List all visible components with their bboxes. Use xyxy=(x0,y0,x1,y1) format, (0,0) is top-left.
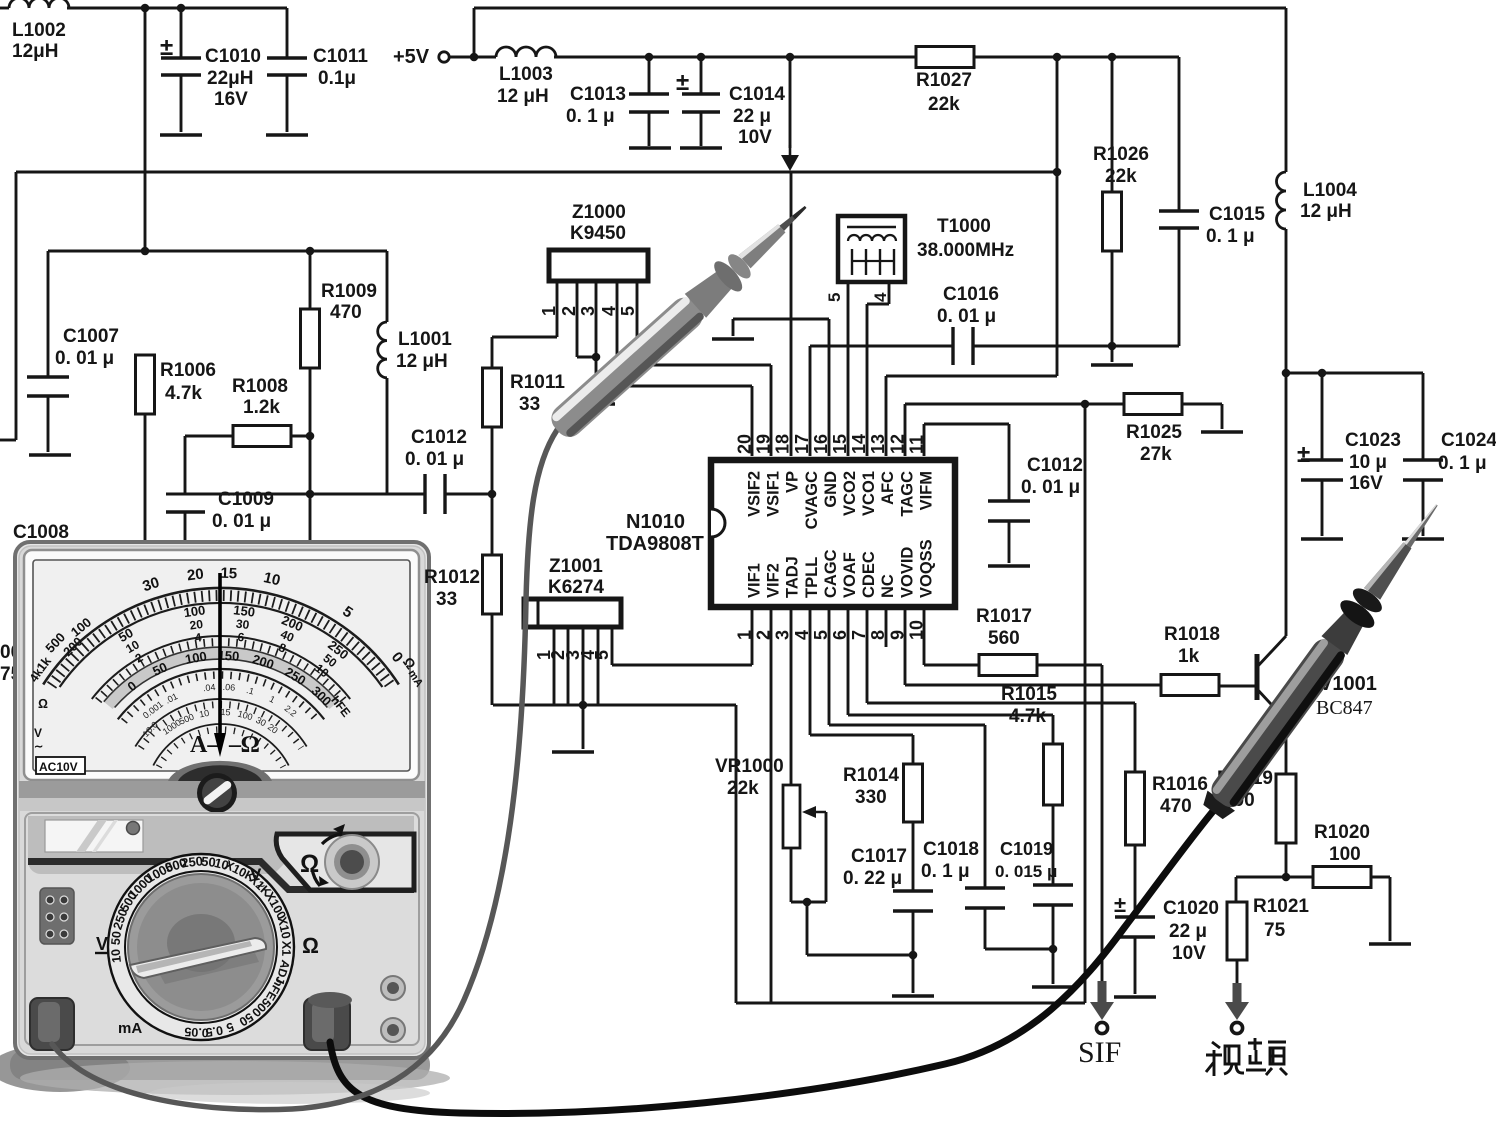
svg-text:1k: 1k xyxy=(1178,646,1200,667)
svg-text:L1004: L1004 xyxy=(1303,180,1357,201)
svg-text:L1003: L1003 xyxy=(499,64,553,85)
svg-text:VIF1: VIF1 xyxy=(746,563,764,598)
svg-text:1.2k: 1.2k xyxy=(243,397,280,418)
svg-text:CAGC: CAGC xyxy=(822,549,840,598)
svg-text:5: 5 xyxy=(592,650,612,660)
svg-text:22 μ: 22 μ xyxy=(733,106,771,127)
svg-text:R1015: R1015 xyxy=(1001,684,1057,705)
svg-text:VOQSS: VOQSS xyxy=(917,539,935,598)
svg-text:15: 15 xyxy=(220,707,231,718)
svg-text:CDEC: CDEC xyxy=(860,551,878,598)
svg-text:0. 1 μ: 0. 1 μ xyxy=(1206,226,1255,247)
svg-text:C1024: C1024 xyxy=(1441,430,1496,451)
svg-text:C1008: C1008 xyxy=(13,522,69,543)
svg-text:V: V xyxy=(96,934,108,954)
svg-text:470: 470 xyxy=(330,302,362,323)
svg-text:TAGC: TAGC xyxy=(898,471,916,517)
svg-text:N1010: N1010 xyxy=(626,511,685,533)
svg-text:L1001: L1001 xyxy=(398,329,452,350)
svg-text:TDA9808T: TDA9808T xyxy=(606,533,704,555)
svg-text:VSIF1: VSIF1 xyxy=(765,471,783,517)
svg-text:10 μ: 10 μ xyxy=(1349,452,1387,473)
svg-text:20: 20 xyxy=(735,434,755,454)
svg-text:C1009: C1009 xyxy=(218,489,274,510)
svg-text:33: 33 xyxy=(436,589,457,610)
svg-text:0. 1 μ: 0. 1 μ xyxy=(566,106,615,127)
svg-text:Ω: Ω xyxy=(302,933,319,958)
svg-text:50: 50 xyxy=(109,930,124,945)
svg-text:SIF: SIF xyxy=(1078,1036,1121,1069)
svg-text:C1015: C1015 xyxy=(1209,204,1265,225)
svg-text:C1012: C1012 xyxy=(411,427,467,448)
svg-text:100: 100 xyxy=(1329,844,1361,865)
svg-text:560: 560 xyxy=(988,628,1020,649)
svg-text:R1025: R1025 xyxy=(1126,422,1182,443)
svg-text:22μH: 22μH xyxy=(207,68,253,89)
svg-text:±: ± xyxy=(1297,441,1310,468)
svg-text:R1014: R1014 xyxy=(843,765,899,786)
svg-text:TADJ: TADJ xyxy=(784,556,802,598)
svg-text:15: 15 xyxy=(220,565,237,583)
svg-text:0. 22 μ: 0. 22 μ xyxy=(843,868,902,889)
svg-text:∼: ∼ xyxy=(34,741,43,753)
svg-text:10V: 10V xyxy=(738,127,772,148)
svg-text:12 μH: 12 μH xyxy=(497,86,549,107)
svg-text:R1027: R1027 xyxy=(916,70,972,91)
svg-text:C1019: C1019 xyxy=(1000,839,1053,859)
svg-text:.04: .04 xyxy=(202,682,215,693)
svg-text:5: 5 xyxy=(618,306,638,316)
svg-text:10V: 10V xyxy=(1172,943,1206,964)
svg-text:VP: VP xyxy=(784,471,802,493)
svg-text:R1012: R1012 xyxy=(424,567,480,588)
svg-text:TPLL: TPLL xyxy=(803,557,821,598)
svg-text:VIF2: VIF2 xyxy=(765,563,783,598)
svg-text:R1006: R1006 xyxy=(160,360,216,381)
svg-text:19: 19 xyxy=(754,434,774,454)
svg-text:.06: .06 xyxy=(222,682,235,693)
svg-text:C1007: C1007 xyxy=(63,326,119,347)
svg-text:16V: 16V xyxy=(214,89,248,110)
svg-text:GND: GND xyxy=(822,471,840,508)
svg-text:R1017: R1017 xyxy=(976,606,1032,627)
svg-text:0.1μ: 0.1μ xyxy=(318,68,356,89)
svg-text:22k: 22k xyxy=(1105,166,1137,187)
svg-text:2: 2 xyxy=(559,306,579,316)
svg-text:12 μH: 12 μH xyxy=(396,351,448,372)
svg-text:VCO2: VCO2 xyxy=(841,471,859,516)
svg-text:Z1000: Z1000 xyxy=(572,202,626,223)
svg-text:NC: NC xyxy=(879,574,897,598)
svg-text:C1023: C1023 xyxy=(1345,430,1401,451)
svg-text:VIFM: VIFM xyxy=(917,471,935,510)
svg-text:Ω: Ω xyxy=(300,850,319,878)
svg-text:mA: mA xyxy=(118,1020,142,1037)
svg-text:22k: 22k xyxy=(727,778,759,799)
svg-text:R1018: R1018 xyxy=(1164,624,1220,645)
svg-text:17: 17 xyxy=(792,434,812,454)
svg-text:10: 10 xyxy=(109,948,124,963)
svg-text:X1: X1 xyxy=(279,941,293,957)
svg-text:22k: 22k xyxy=(928,94,960,115)
svg-text:0. 01 μ: 0. 01 μ xyxy=(405,449,464,470)
svg-text:27k: 27k xyxy=(1140,444,1172,465)
svg-text:Ω: Ω xyxy=(38,696,48,711)
svg-text:–Ω: –Ω xyxy=(228,732,259,758)
svg-text:4: 4 xyxy=(871,292,890,302)
svg-text:22 μ: 22 μ xyxy=(1169,921,1207,942)
svg-text:C1014: C1014 xyxy=(729,84,785,105)
svg-text:AC10V: AC10V xyxy=(39,760,78,774)
svg-text:0. 1 μ: 0. 1 μ xyxy=(921,861,970,882)
svg-text:CVAGC: CVAGC xyxy=(803,471,821,529)
svg-text:VR1000: VR1000 xyxy=(715,756,784,777)
svg-text:1: 1 xyxy=(539,306,559,316)
svg-text:C1016: C1016 xyxy=(943,284,999,305)
svg-text:0. 01 μ: 0. 01 μ xyxy=(55,348,114,369)
svg-text:10: 10 xyxy=(198,708,210,720)
svg-text:470: 470 xyxy=(1160,796,1192,817)
svg-text:0.05: 0.05 xyxy=(184,1024,209,1039)
svg-text:VOAF: VOAF xyxy=(841,552,859,598)
svg-text:0. 01 μ: 0. 01 μ xyxy=(1021,477,1080,498)
svg-text:C1012: C1012 xyxy=(1027,455,1083,476)
svg-text:VCO1: VCO1 xyxy=(860,471,878,516)
svg-text:4.7k: 4.7k xyxy=(1009,706,1046,727)
svg-text:C1013: C1013 xyxy=(570,84,626,105)
svg-text:0. 015 μ: 0. 015 μ xyxy=(995,862,1057,881)
svg-text:C1018: C1018 xyxy=(923,839,979,860)
svg-text:BC847: BC847 xyxy=(1316,697,1373,719)
svg-text:C1011: C1011 xyxy=(313,46,368,67)
svg-text:12 μH: 12 μH xyxy=(1300,201,1352,222)
svg-text:16: 16 xyxy=(811,434,831,454)
svg-text:+5V: +5V xyxy=(393,46,430,68)
svg-text:R1009: R1009 xyxy=(321,281,377,302)
svg-text:38.000MHz: 38.000MHz xyxy=(917,240,1014,261)
svg-text:V: V xyxy=(34,726,42,740)
svg-text:L1002: L1002 xyxy=(12,20,66,41)
svg-text:12μH: 12μH xyxy=(12,41,58,62)
svg-text:75: 75 xyxy=(1264,920,1286,941)
svg-text:Z1001: Z1001 xyxy=(549,556,603,577)
svg-text:20: 20 xyxy=(186,566,205,585)
svg-text:VSIF2: VSIF2 xyxy=(746,471,764,517)
svg-text:K6274: K6274 xyxy=(548,577,604,598)
svg-text:±: ± xyxy=(676,69,689,96)
svg-text:R1011: R1011 xyxy=(510,372,565,393)
svg-text:±: ± xyxy=(1114,892,1126,917)
svg-text:0. 01 μ: 0. 01 μ xyxy=(212,511,271,532)
svg-text:VOVID: VOVID xyxy=(898,547,916,598)
svg-text:C1010: C1010 xyxy=(205,46,261,67)
svg-text:R1020: R1020 xyxy=(1314,822,1370,843)
svg-text:R1008: R1008 xyxy=(232,376,288,397)
svg-text:4.7k: 4.7k xyxy=(165,383,202,404)
svg-text:T1000: T1000 xyxy=(937,216,991,237)
svg-text:C1020: C1020 xyxy=(1163,898,1219,919)
svg-text:C1017: C1017 xyxy=(851,846,907,867)
svg-text:33: 33 xyxy=(519,394,540,415)
svg-text:5: 5 xyxy=(825,293,844,302)
svg-text:0. 1 μ: 0. 1 μ xyxy=(1438,453,1487,474)
svg-text:R1016: R1016 xyxy=(1152,774,1208,795)
svg-text:330: 330 xyxy=(855,787,887,808)
svg-text:R1026: R1026 xyxy=(1093,144,1149,165)
svg-text:∼: ∼ xyxy=(255,878,266,893)
svg-text:16V: 16V xyxy=(1349,473,1383,494)
svg-text:18: 18 xyxy=(773,434,793,454)
svg-text:3: 3 xyxy=(578,306,598,316)
svg-text:AFC: AFC xyxy=(879,471,897,505)
svg-text:K9450: K9450 xyxy=(570,223,626,244)
svg-text:R1021: R1021 xyxy=(1253,896,1309,917)
svg-text:0. 01 μ: 0. 01 μ xyxy=(937,306,996,327)
svg-text:4: 4 xyxy=(599,306,619,316)
